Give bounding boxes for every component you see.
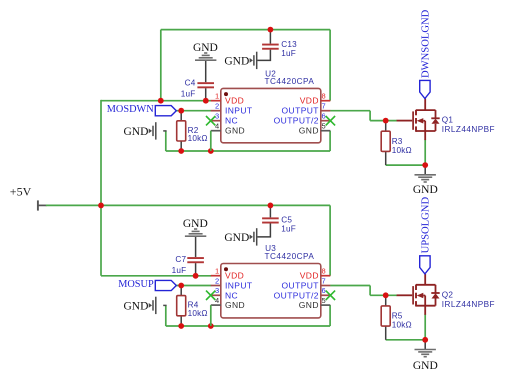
capacitor C13 plates: [262, 44, 279, 46]
ground symbol (earth) below Q2 bars: [415, 350, 436, 357]
junction node +5V rail/vertical: [98, 203, 104, 209]
wire U3 pin7 output segment: [330, 285, 370, 287]
junction node top-loop/pin1 row: [158, 98, 164, 104]
svg-text:1uF: 1uF: [172, 266, 187, 275]
transistor Q2 body diode: [431, 285, 439, 306]
ground symbol (sideways) near C13 arrow: [250, 58, 253, 63]
IC U3 pin 2 stub: [211, 285, 221, 287]
+5V supply pin tick: [37, 200, 39, 210]
junction node C7/pin1 row: [193, 273, 199, 279]
IC U2 pin 7 stub: [321, 110, 331, 112]
svg-text:7: 7: [322, 276, 326, 285]
svg-text:IRLZ44NPBF: IRLZ44NPBF: [442, 125, 495, 134]
wire Q2 source down: [424, 314, 426, 340]
svg-text:7: 7: [322, 102, 326, 111]
lead gnd stub near R4: [163, 304, 166, 306]
IC U2 no-connect cross pin 6: [326, 116, 335, 125]
svg-text:GND: GND: [224, 232, 249, 244]
capacitor C5 plates: [262, 217, 279, 219]
svg-text:GND: GND: [413, 184, 438, 196]
lead R4 bottom: [180, 316, 182, 326]
svg-text:C5: C5: [281, 215, 292, 224]
transistor Q1 substrate arrow: [417, 118, 424, 123]
net label DWNSOLGND flag: [420, 80, 430, 98]
transistor Q1 source lead: [424, 131, 426, 140]
IC U3 pin 8 stub: [321, 275, 331, 277]
wire R5 bottom to Q2 source: [386, 339, 426, 341]
transistor Q1 gate bar: [412, 111, 414, 129]
transistor Q2 top (drain) bar: [416, 284, 436, 286]
svg-text:C7: C7: [175, 255, 186, 264]
svg-text:5: 5: [322, 122, 326, 131]
wire U2 pin8 riser: [329, 30, 331, 101]
svg-text:GND: GND: [299, 126, 319, 136]
transistor Q2 gate lead: [397, 294, 413, 296]
svg-text:1uF: 1uF: [281, 49, 296, 58]
lead gnd stub near R2: [163, 130, 166, 132]
wire U2 pin1 row: [101, 100, 211, 102]
IC U2 pin 3 stub: [211, 120, 221, 122]
IC U3 pin 5 stub: [321, 304, 331, 306]
IC U2 pin 8 stub: [321, 100, 331, 102]
junction node C5/+5V rail: [268, 203, 274, 209]
junction node MOSUP/R4: [178, 283, 184, 289]
svg-text:NC: NC: [225, 116, 238, 126]
svg-text:C4: C4: [185, 79, 196, 88]
capacitor C7 plates: [187, 257, 204, 259]
net label UPSOLGND flag: [420, 256, 430, 274]
svg-text:GND: GND: [123, 126, 148, 138]
transistor Q1 source vertical: [424, 121, 426, 131]
lead R5 top: [385, 295, 387, 306]
junction node R2/gnd rail: [178, 148, 184, 154]
wire MOSUP to U3 pin2: [176, 285, 211, 287]
IC U3 pin 3 stub: [211, 294, 221, 296]
lead R3 bottom: [385, 151, 387, 165]
wire U3 pin1 row: [101, 275, 211, 277]
lead C4 top (from inverted earth gnd): [205, 60, 207, 82]
svg-text:3: 3: [215, 286, 219, 295]
transistor Q2 substrate arrow: [417, 293, 424, 298]
resistor R3 body: [381, 131, 390, 151]
svg-text:VDD: VDD: [225, 271, 244, 281]
transistor Q1 body diode: [431, 110, 439, 131]
svg-text:MOSDWN: MOSDWN: [107, 104, 154, 115]
ground symbol (sideways) near R2 tall bar: [155, 122, 157, 139]
lead earth gnd stem below Q1: [424, 165, 426, 175]
ground symbol (sideways) near R2 short bar: [152, 126, 154, 136]
op-amp driver IC U3 body: [221, 264, 321, 318]
svg-text:Q1: Q1: [442, 116, 454, 125]
svg-text:GND: GND: [225, 300, 245, 310]
ground symbol (sideways) near C13 tall bar: [256, 52, 258, 69]
transistor Q1 drain lead: [424, 99, 426, 111]
ground symbol (sideways) near C13 short bar: [253, 55, 255, 65]
ground symbol (sideways) near C5 arrow: [250, 235, 253, 240]
svg-text:6: 6: [322, 112, 326, 121]
lead C7 top (from earth gnd): [195, 236, 197, 257]
wire gnd drop left (top section): [165, 131, 167, 151]
ground symbol (sideways) near R2 arrow: [149, 129, 152, 134]
svg-text:C13: C13: [281, 40, 297, 49]
lead R4 top: [180, 286, 182, 296]
resistor R2 body: [177, 121, 186, 141]
junction node U3 pin4 riser/gnd rail: [208, 323, 214, 329]
svg-text:+5V: +5V: [10, 184, 32, 198]
svg-text:UPSOLGND: UPSOLGND: [421, 197, 432, 254]
wire bottom section ground rail: [166, 325, 330, 327]
junction node pin4 riser/gnd rail: [208, 148, 214, 154]
wire U2 pin5 riser: [329, 131, 331, 151]
lead R2 bottom: [180, 141, 182, 151]
svg-text:6: 6: [322, 286, 326, 295]
wire gnd drop left (bottom section): [165, 305, 167, 326]
lead C4 bottom: [205, 88, 207, 101]
svg-text:8: 8: [322, 267, 326, 276]
svg-text:VDD: VDD: [300, 271, 319, 281]
junction node R3/gate wire: [383, 118, 389, 124]
op-amp driver IC U2 body: [221, 88, 321, 142]
ground symbol (sideways) near C5 tall bar: [256, 228, 258, 245]
wire MOSDWN to U2 pin2: [176, 110, 211, 112]
lead C13 bottom + bend to gnd: [257, 50, 270, 61]
svg-text:10kΩ: 10kΩ: [392, 146, 412, 155]
wire Q1 source down: [424, 140, 426, 166]
svg-text:GND: GND: [224, 55, 249, 67]
lead C7 bottom: [195, 263, 197, 276]
svg-text:OUTPUT: OUTPUT: [282, 281, 319, 291]
IC U3 pin-1 marker dot: [224, 267, 228, 271]
svg-text:10kΩ: 10kΩ: [188, 309, 208, 318]
IC U3 no-connect cross pin 3: [206, 291, 215, 300]
wire R3 bottom to Q1 source: [386, 164, 426, 166]
svg-text:IRLZ44NPBF: IRLZ44NPBF: [442, 300, 495, 309]
lead C5 bottom + bend to gnd: [257, 223, 270, 237]
IC U3 no-connect cross pin 6: [326, 291, 335, 300]
IC U2 no-connect cross pin 3: [206, 116, 215, 125]
ground symbol (earth) below Q1 bars: [415, 175, 436, 182]
ground symbol (sideways) near R4 tall bar: [155, 297, 157, 314]
net label MOSUP flag: [155, 280, 176, 290]
IC U3 pin 7 stub: [321, 285, 331, 287]
junction node C4/pin1: [203, 98, 209, 104]
svg-text:4: 4: [215, 122, 219, 131]
wire to Q1 gate: [370, 120, 397, 122]
svg-text:INPUT: INPUT: [225, 281, 253, 291]
svg-text:GND: GND: [299, 300, 319, 310]
IC U3 pin 4 stub: [211, 304, 221, 306]
wire to Q2 gate: [370, 294, 397, 296]
wire U3 pin8 riser from +5V rail: [329, 205, 331, 275]
IC U2 pin-1 marker dot: [224, 92, 228, 96]
transistor Q1 bottom (source) bar: [416, 130, 436, 132]
transistor Q1 gate lead: [397, 120, 413, 122]
wire U3 pin5 riser: [329, 305, 331, 326]
transistor Q2 channel segments: [415, 285, 417, 307]
svg-text:10kΩ: 10kΩ: [392, 321, 412, 330]
svg-text:GND: GND: [413, 360, 438, 372]
transistor Q2 drain lead: [424, 274, 426, 285]
wire top rail U2 loop: [161, 29, 330, 31]
lead R3 top: [385, 121, 387, 132]
svg-text:Q2: Q2: [442, 290, 454, 299]
wire top loop left vertical: [160, 30, 162, 101]
wire +5V rail (gray supply stub): [38, 204, 47, 206]
junction node Q1 source/R3/GND: [422, 162, 428, 168]
lead C13 top: [269, 30, 271, 44]
resistor R5 body: [381, 306, 390, 326]
IC U2 pin 4 stub: [211, 130, 221, 132]
svg-text:GND: GND: [193, 42, 218, 54]
wire U2 pin4 riser: [210, 131, 212, 151]
junction node R4/gnd rail: [178, 323, 184, 329]
wire U3 pin4 riser: [210, 305, 212, 326]
svg-text:1: 1: [215, 267, 219, 276]
junction node R5/gate wire: [383, 292, 389, 298]
svg-text:R3: R3: [392, 137, 403, 146]
ground symbol (earth) bars: [195, 53, 216, 60]
svg-text:VDD: VDD: [300, 96, 319, 106]
lead C5 top: [269, 205, 271, 217]
svg-text:VDD: VDD: [225, 96, 244, 106]
resistor R4 body: [177, 296, 186, 316]
IC U2 pin 1 stub: [211, 100, 221, 102]
junction node C13/top rail: [268, 27, 274, 33]
ground symbol (earth) bars: [185, 229, 206, 236]
IC U3 pin 1 stub: [211, 275, 221, 277]
svg-text:1uF: 1uF: [181, 90, 196, 99]
svg-text:TC4420CPA: TC4420CPA: [265, 252, 315, 261]
svg-text:2: 2: [215, 102, 219, 111]
ground symbol (sideways) near C5 short bar: [253, 232, 255, 242]
svg-text:8: 8: [322, 92, 326, 101]
wire output jog vertical (bottom): [369, 286, 371, 296]
svg-text:10kΩ: 10kΩ: [188, 134, 208, 143]
junction node MOSDWN/R2: [178, 108, 184, 114]
capacitor C4 plates: [197, 82, 214, 84]
svg-text:1: 1: [215, 92, 219, 101]
svg-text:NC: NC: [225, 290, 238, 300]
svg-text:TC4420CPA: TC4420CPA: [265, 77, 315, 86]
transistor Q1 top (drain) bar: [416, 109, 436, 111]
svg-text:R5: R5: [392, 312, 403, 321]
wire top section ground rail: [166, 150, 330, 152]
svg-text:GND: GND: [183, 218, 208, 230]
IC U3 pin 6 stub: [321, 294, 331, 296]
IC U2 pin 5 stub: [321, 130, 331, 132]
wire U2 pin7 output segment: [330, 110, 370, 112]
IC U2 pin 6 stub: [321, 120, 331, 122]
svg-text:GND: GND: [225, 126, 245, 136]
transistor Q1 channel segments: [415, 110, 417, 132]
transistor Q2 source vertical: [424, 296, 426, 306]
transistor Q2 source lead: [424, 306, 426, 315]
svg-text:1uF: 1uF: [281, 224, 296, 233]
svg-text:2: 2: [215, 276, 219, 285]
svg-text:3: 3: [215, 112, 219, 121]
transistor Q2 gate bar: [412, 286, 414, 304]
svg-text:DWNSOLGND: DWNSOLGND: [421, 9, 432, 78]
svg-text:OUTPUT: OUTPUT: [282, 106, 319, 116]
lead earth gnd stem below Q2: [424, 340, 426, 350]
svg-text:4: 4: [215, 296, 219, 305]
svg-text:OUTPUT/2: OUTPUT/2: [274, 116, 319, 126]
svg-text:MOSUP: MOSUP: [118, 279, 154, 290]
svg-text:OUTPUT/2: OUTPUT/2: [274, 290, 319, 300]
svg-text:INPUT: INPUT: [225, 106, 253, 116]
svg-text:GND: GND: [123, 300, 148, 312]
net label MOSDWN flag: [155, 106, 176, 116]
lead R5 bottom: [385, 326, 387, 340]
junction node Q2 source/R5/GND: [422, 337, 428, 343]
wire main +5V vertical: [100, 100, 102, 276]
wire output jog vertical (top): [369, 111, 371, 121]
ground symbol (sideways) near R4 short bar: [152, 300, 154, 310]
svg-text:5: 5: [322, 296, 326, 305]
ground symbol (sideways) near R4 arrow: [149, 303, 152, 308]
IC U2 pin 2 stub: [211, 110, 221, 112]
transistor Q2 bottom (source) bar: [416, 305, 436, 307]
wire +5V horizontal rail: [46, 204, 330, 206]
lead R2 top: [180, 111, 182, 121]
